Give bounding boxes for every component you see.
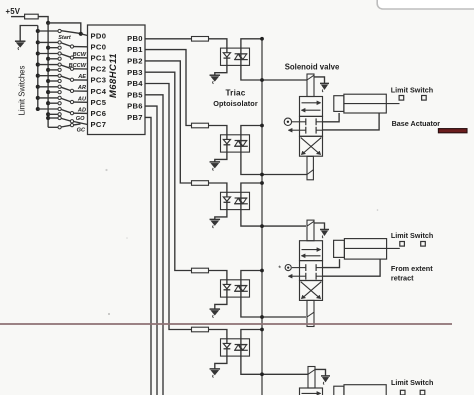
wire triac output opto1 <box>241 65 307 80</box>
switch row1 lever <box>61 43 70 46</box>
resistor R4 opto3 input <box>192 181 209 186</box>
wire +5V to R1 <box>11 16 25 18</box>
switch AD common <box>70 111 73 114</box>
MCU U1 M68HC11 body <box>88 25 146 135</box>
svg-text:PC4: PC4 <box>91 87 107 96</box>
svg-text:AR: AR <box>77 85 86 91</box>
node start-PD0 <box>79 32 83 36</box>
switch AR lower contact wire <box>46 90 50 94</box>
ground <box>15 40 26 42</box>
wire resistor to LED opto1 <box>209 39 227 48</box>
wire triac output opto3 <box>241 210 306 227</box>
valve SV2 body <box>300 241 323 261</box>
limit switch contact 1b <box>422 96 427 101</box>
svg-text:AU: AU <box>77 96 87 102</box>
wire BCCW to pin <box>74 68 88 70</box>
wire AR to pin <box>74 90 88 92</box>
wire ground branch <box>20 26 38 41</box>
ports SV2 upper <box>305 264 307 271</box>
wire LED cathode to ground opto2 <box>215 152 227 162</box>
svg-text:PC0: PC0 <box>91 42 107 51</box>
LED opto1 <box>226 48 228 65</box>
cylinder extent barrel <box>344 239 386 260</box>
ground opto2 <box>210 161 221 163</box>
switch BCCW lever <box>61 65 70 68</box>
wire LED cathode to ground opto4 <box>215 297 227 309</box>
wire LED cathode to ground opto3 <box>215 210 227 220</box>
svg-text:PB0: PB0 <box>127 34 143 43</box>
switch AD lower contact wire <box>46 112 50 116</box>
junction bus-feed opto3 <box>260 181 264 185</box>
switch Start <box>36 29 40 33</box>
wire R1 to start-switch feed <box>38 17 48 23</box>
triac opto1 <box>240 48 242 65</box>
flow arrow SV3 <box>302 392 319 394</box>
triac opto2 <box>240 135 242 152</box>
svg-text:Triac: Triac <box>225 89 245 98</box>
scan speck <box>126 237 128 239</box>
wire AE to pin <box>74 79 88 81</box>
solenoid valve SV2 lower coil <box>307 300 314 326</box>
wire PB3 to opto4 <box>145 72 192 270</box>
ground SV3 <box>315 369 326 375</box>
switch AR lever <box>61 87 70 90</box>
svg-text:PC5: PC5 <box>91 98 107 107</box>
switch AU lower contact wire <box>46 101 50 105</box>
UI overlay box corner <box>377 0 474 9</box>
resistor R3 opto2 input <box>192 123 209 128</box>
svg-text:GO: GO <box>76 116 85 122</box>
switch BCCW common <box>70 67 73 70</box>
wire AC bus to triac opto5 <box>241 330 262 339</box>
switch AD lever <box>61 110 70 113</box>
triac opto5 <box>240 339 242 356</box>
cylinder base actuator rod <box>344 103 400 105</box>
svg-text:Limit Switch: Limit Switch <box>391 378 433 387</box>
ground SV1 upper <box>314 77 325 83</box>
wire resistor to LED opto3 <box>209 183 227 192</box>
svg-text:PB3: PB3 <box>127 68 143 77</box>
wire PB0 to opto1 <box>145 38 192 40</box>
svg-text:+5V: +5V <box>6 7 21 16</box>
X-section SV1 <box>301 138 320 154</box>
X-section SV2 <box>301 282 320 298</box>
wire GO to PC7 <box>74 122 88 125</box>
svg-text:PB5: PB5 <box>127 90 143 99</box>
ground opto4 <box>210 308 221 310</box>
svg-text:Solenoid valve: Solenoid valve <box>285 62 340 71</box>
LED opto5 <box>226 339 228 356</box>
wire AC bus to triac opto2 <box>241 126 262 135</box>
switch AE lever <box>61 76 70 79</box>
limit switch contact 2a <box>400 242 405 247</box>
junction bus-feed opto1 <box>260 37 264 41</box>
switch AE upper contact wire <box>36 74 40 78</box>
ground opto3 <box>210 218 221 220</box>
junction bus-output opto4 <box>260 315 264 319</box>
svg-text:M68HC11: M68HC11 <box>107 53 118 98</box>
resistor R1 pull-up <box>25 14 39 19</box>
switch BCCW lower contact wire <box>46 68 50 72</box>
solenoid valve SV2 upper coil <box>307 220 314 241</box>
junction +5V node <box>46 21 50 25</box>
switch AD upper contact wire <box>36 107 40 111</box>
scan speck <box>105 169 107 171</box>
limit switch contact 3b <box>420 390 425 395</box>
junction bus-feed opto5 <box>260 328 264 332</box>
optoisolator U3 box <box>221 135 250 152</box>
svg-text:PC1: PC1 <box>91 54 107 63</box>
switch row1 upper contact wire <box>36 40 40 44</box>
LED opto4 <box>226 280 228 297</box>
wire AC bus to triac opto4 <box>241 271 262 280</box>
svg-text:PC7: PC7 <box>91 120 107 129</box>
svg-text:PC2: PC2 <box>91 65 107 74</box>
optoisolator U2 box <box>221 48 250 65</box>
svg-text:retract: retract <box>391 273 414 282</box>
switch AE common <box>70 78 73 81</box>
solenoid valve SV1 lower coil <box>307 156 313 179</box>
svg-text:Optoisolator: Optoisolator <box>213 99 258 108</box>
limit switch contact 2b <box>421 242 426 247</box>
wire AD to pin <box>74 112 88 114</box>
exhaust arrow SV1 <box>291 129 300 131</box>
svg-text:From extent: From extent <box>391 264 433 273</box>
wire AC bus vertical <box>261 39 263 395</box>
svg-text:BCCW: BCCW <box>69 63 87 69</box>
junction bus-feed opto4 <box>260 269 264 273</box>
ground opto1 <box>210 74 221 76</box>
triac opto4 <box>240 280 242 297</box>
switch GC <box>48 126 58 128</box>
pressure source SV1 <box>284 118 291 125</box>
junction bus-output opto3 <box>260 224 264 228</box>
resistor R6 opto5 input <box>192 327 209 332</box>
LED opto2 <box>226 135 228 152</box>
wire AC bus to triac opto3 <box>241 183 262 192</box>
annotation line horizontal <box>0 323 452 325</box>
LED opto3 <box>226 192 228 209</box>
triac opto3 <box>240 192 242 209</box>
svg-text:PC6: PC6 <box>91 109 107 118</box>
wire PB4 to opto5 <box>145 84 192 330</box>
valve SV3 body <box>300 388 323 395</box>
switch AR upper contact wire <box>36 85 40 89</box>
wire second bus vertical <box>47 23 49 127</box>
switch AU upper contact wire <box>36 96 40 100</box>
limit switch contact 3a <box>400 390 405 395</box>
wire AC bus to triac opto1 <box>241 39 262 48</box>
svg-text:BCW: BCW <box>73 52 87 58</box>
tube SV2 to cylinder port B <box>323 259 381 276</box>
wire LED cathode to ground opto5 <box>215 356 227 369</box>
scan speck <box>377 209 379 211</box>
switch row1 common <box>70 45 73 48</box>
switch BCW lever <box>61 54 70 57</box>
annotation bar maroon <box>438 129 467 133</box>
svg-text:GC: GC <box>77 127 86 133</box>
optoisolator U6 box <box>221 339 250 356</box>
junction bus-output opto1 <box>260 78 264 82</box>
svg-text:Start: Start <box>58 35 72 41</box>
ports SV2 lower <box>305 273 307 280</box>
switch AU common <box>70 100 73 103</box>
tube SV2 to cylinder port A <box>323 259 340 268</box>
scan speck <box>108 313 110 315</box>
wire PB2 to opto3 <box>145 61 192 183</box>
ground opto5 <box>210 368 221 370</box>
svg-text:PB2: PB2 <box>127 57 143 66</box>
wire row1 to pin <box>74 46 88 48</box>
cylinder 3 cap <box>334 386 344 395</box>
svg-text:Base Actuator: Base Actuator <box>392 119 441 128</box>
wire resistor to LED opto2 <box>209 126 227 135</box>
wire ground bus vertical <box>37 26 39 111</box>
tube SV1 to cylinder port B <box>323 113 380 130</box>
switch BCW upper contact wire <box>36 51 40 55</box>
switch AU lever <box>61 98 70 101</box>
wire GC join PC7 wire <box>74 124 81 125</box>
wire LED cathode to ground opto1 <box>215 65 227 75</box>
switch row1 lower contact wire <box>46 46 50 50</box>
svg-text:PB4: PB4 <box>127 79 143 88</box>
svg-text:PB7: PB7 <box>127 113 143 122</box>
wire start to PD0 <box>81 34 88 36</box>
flow arrows SV1 <box>302 102 319 104</box>
solenoid valve SV3 coil <box>308 367 315 389</box>
wire BCW to pin <box>74 57 88 59</box>
solenoid valve SV1 upper coil <box>307 74 314 97</box>
resistor R2 opto1 input <box>192 37 209 42</box>
wire AU to pin <box>74 101 88 103</box>
limit switch contact 1a <box>399 96 404 101</box>
svg-text:Limit Switches: Limit Switches <box>17 65 26 115</box>
wire triac output opto4 <box>241 297 306 317</box>
wire triac output opto2 <box>241 152 307 174</box>
wire +5V feed to start switch <box>48 23 81 34</box>
switch AE lower contact wire <box>46 79 50 83</box>
wire resistor to LED opto5 <box>209 330 227 339</box>
wire PB1 to opto2 <box>145 50 192 126</box>
switch GO <box>46 116 50 120</box>
cylinder extent cap <box>334 240 345 257</box>
svg-text:*: * <box>278 263 281 272</box>
svg-text:Limit Switch: Limit Switch <box>391 86 433 95</box>
junction bus-feed opto2 <box>260 124 264 128</box>
wire triac output opto5 <box>241 356 308 374</box>
ports SV1 lower <box>305 127 307 134</box>
resistor R5 opto4 input <box>192 268 209 273</box>
svg-text:PD0: PD0 <box>91 31 107 40</box>
junction bus-output opto2 <box>260 173 264 177</box>
svg-text:PB6: PB6 <box>127 102 143 111</box>
tube SV1 to cylinder port A <box>323 113 340 122</box>
switch BCW lower contact wire <box>46 57 50 61</box>
switch BCCW upper contact wire <box>36 63 40 67</box>
optoisolator U4 box <box>221 192 250 209</box>
flow arrows SV2 <box>302 249 319 251</box>
valve SV1 body <box>300 97 323 117</box>
cylinder base actuator barrel <box>344 94 386 113</box>
cylinder 3 barrel <box>344 385 386 395</box>
svg-text:AD: AD <box>77 107 86 113</box>
cylinder extent rod <box>344 247 399 249</box>
exhaust arrow SV2 <box>291 275 300 277</box>
switch AR common <box>70 89 73 92</box>
switch BCW common <box>70 56 73 59</box>
ground SV2 upper <box>314 223 325 229</box>
svg-text:PC3: PC3 <box>91 76 107 85</box>
wire PB6 down <box>145 106 157 395</box>
wire PB5 down <box>145 95 163 395</box>
svg-text:Limit Switch: Limit Switch <box>391 231 433 240</box>
ports SV1 upper <box>305 118 307 125</box>
svg-text:PB1: PB1 <box>127 45 143 54</box>
wire resistor to LED opto4 <box>209 271 227 280</box>
optoisolator U5 box <box>221 280 250 297</box>
svg-text:AE: AE <box>77 74 86 80</box>
wire PB7 down <box>145 117 151 395</box>
cylinder base actuator cap <box>334 96 344 112</box>
junction bus-output opto5 <box>260 372 264 376</box>
